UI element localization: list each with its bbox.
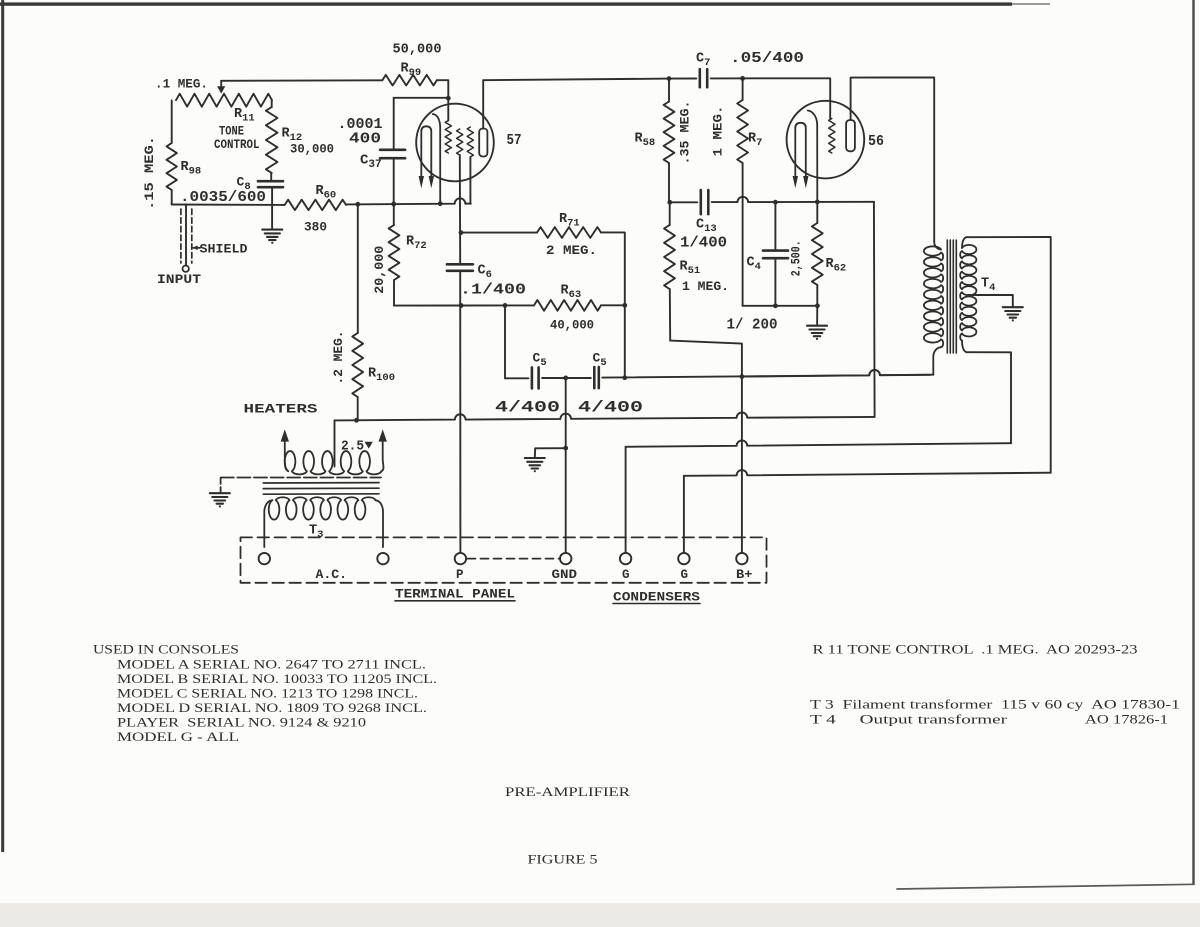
svg-text:.05/400: .05/400: [730, 50, 804, 67]
svg-text:20,000: 20,000: [373, 246, 387, 294]
svg-text:P: P: [456, 568, 464, 582]
svg-text:MODEL G - ALL: MODEL G - ALL: [117, 729, 239, 744]
svg-text:TERMINAL PANEL: TERMINAL PANEL: [395, 587, 515, 602]
svg-text:CONDENSERS: CONDENSERS: [613, 590, 700, 605]
svg-text:4/400: 4/400: [578, 399, 643, 417]
svg-text:1/400: 1/400: [680, 236, 727, 252]
svg-text:B+: B+: [736, 567, 753, 582]
svg-text:INPUT: INPUT: [157, 273, 202, 287]
svg-text:T 3 Filament transformer 115: T 3 Filament transformer 115 v 60 cy AO …: [810, 696, 1180, 711]
svg-text:R 11 TONE CONTROL .1 MEG. AO: R 11 TONE CONTROL .1 MEG. AO 20293-23: [813, 642, 1138, 657]
svg-text:.2 MEG.: .2 MEG.: [332, 331, 346, 385]
svg-text:MODEL A SERIAL NO. 2647 TO 271: MODEL A SERIAL NO. 2647 TO 2711 INCL.: [117, 656, 426, 671]
svg-text:CONTROL: CONTROL: [214, 138, 260, 152]
svg-text:PRE-AMPLIFIER: PRE-AMPLIFIER: [505, 784, 630, 799]
svg-text:HEATERS: HEATERS: [244, 403, 319, 417]
svg-text:380: 380: [304, 220, 327, 235]
svg-text:USED IN CONSOLES: USED IN CONSOLES: [93, 642, 239, 657]
svg-text:AO 17826-1: AO 17826-1: [1085, 711, 1168, 726]
svg-text:56: 56: [868, 133, 884, 150]
svg-text:2.5: 2.5: [341, 440, 364, 455]
svg-text:.0035/600: .0035/600: [180, 190, 266, 206]
svg-text:A.C.: A.C.: [316, 568, 348, 582]
svg-text:MODEL C SERIAL NO. 1213 TO 129: MODEL C SERIAL NO. 1213 TO 1298 INCL.: [117, 685, 418, 700]
svg-text:400: 400: [349, 131, 381, 148]
svg-text:SHIELD: SHIELD: [200, 243, 249, 257]
svg-text:40,000: 40,000: [550, 318, 594, 333]
svg-text:.35 MEG.: .35 MEG.: [679, 101, 693, 165]
svg-text:.1 MEG.: .1 MEG.: [155, 77, 208, 92]
svg-text:2,500.: 2,500.: [790, 240, 804, 276]
svg-text:50,000: 50,000: [393, 43, 442, 58]
svg-text:MODEL D SERIAL NO. 1809 TO 926: MODEL D SERIAL NO. 1809 TO 9268 INCL.: [117, 700, 427, 715]
svg-text:GND: GND: [552, 568, 578, 582]
svg-text:TONE: TONE: [219, 125, 244, 139]
svg-text:.15 MEG.: .15 MEG.: [143, 136, 157, 210]
svg-text:G: G: [622, 568, 630, 582]
svg-text:FIGURE 5: FIGURE 5: [528, 852, 598, 867]
svg-text:1 MEG.: 1 MEG.: [712, 106, 726, 157]
svg-text:PLAYER SERIAL NO. 9124 & 9210: PLAYER SERIAL NO. 9124 & 9210: [117, 714, 366, 729]
svg-text:G: G: [681, 568, 689, 582]
svg-text:1 MEG.: 1 MEG.: [682, 279, 729, 294]
svg-text:MODEL B SERIAL NO. 10033 TO 11: MODEL B SERIAL NO. 10033 TO 11205 INCL.: [117, 671, 437, 686]
svg-text:T 4 Output transformer: T 4 Output transformer: [810, 711, 1008, 726]
svg-text:4/400: 4/400: [495, 399, 560, 417]
svg-text:2 MEG.: 2 MEG.: [546, 243, 597, 258]
svg-text:57: 57: [507, 132, 522, 149]
svg-text:1/ 200: 1/ 200: [727, 318, 778, 334]
svg-text:.1/400: .1/400: [460, 283, 526, 299]
